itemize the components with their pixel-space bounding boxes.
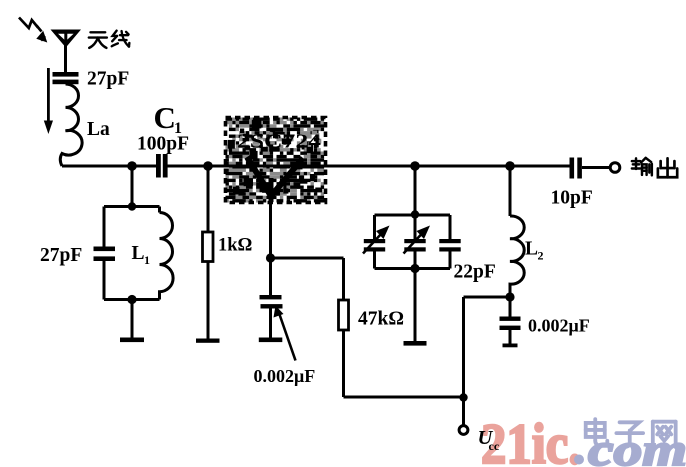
svg-text:100pF: 100pF (137, 134, 189, 155)
svg-text:27pF: 27pF (87, 69, 129, 90)
svg-text:0.002μF: 0.002μF (254, 366, 316, 386)
svg-text:47kΩ: 47kΩ (358, 309, 404, 330)
svg-text:27pF: 27pF (40, 245, 82, 266)
svg-text:1kΩ: 1kΩ (218, 236, 252, 256)
svg-text:10pF: 10pF (551, 188, 593, 209)
svg-text:0.002μF: 0.002μF (528, 316, 590, 336)
svg-text:L: L (525, 239, 538, 260)
svg-text:22pF: 22pF (454, 262, 496, 283)
svg-text:cc: cc (489, 439, 500, 453)
svg-text:C: C (154, 100, 176, 135)
svg-text:2SC724: 2SC724 (237, 132, 321, 153)
svg-text:1: 1 (144, 253, 150, 267)
svg-text:L: L (132, 243, 145, 264)
svg-text:La: La (87, 119, 110, 140)
svg-text:2: 2 (538, 249, 544, 263)
